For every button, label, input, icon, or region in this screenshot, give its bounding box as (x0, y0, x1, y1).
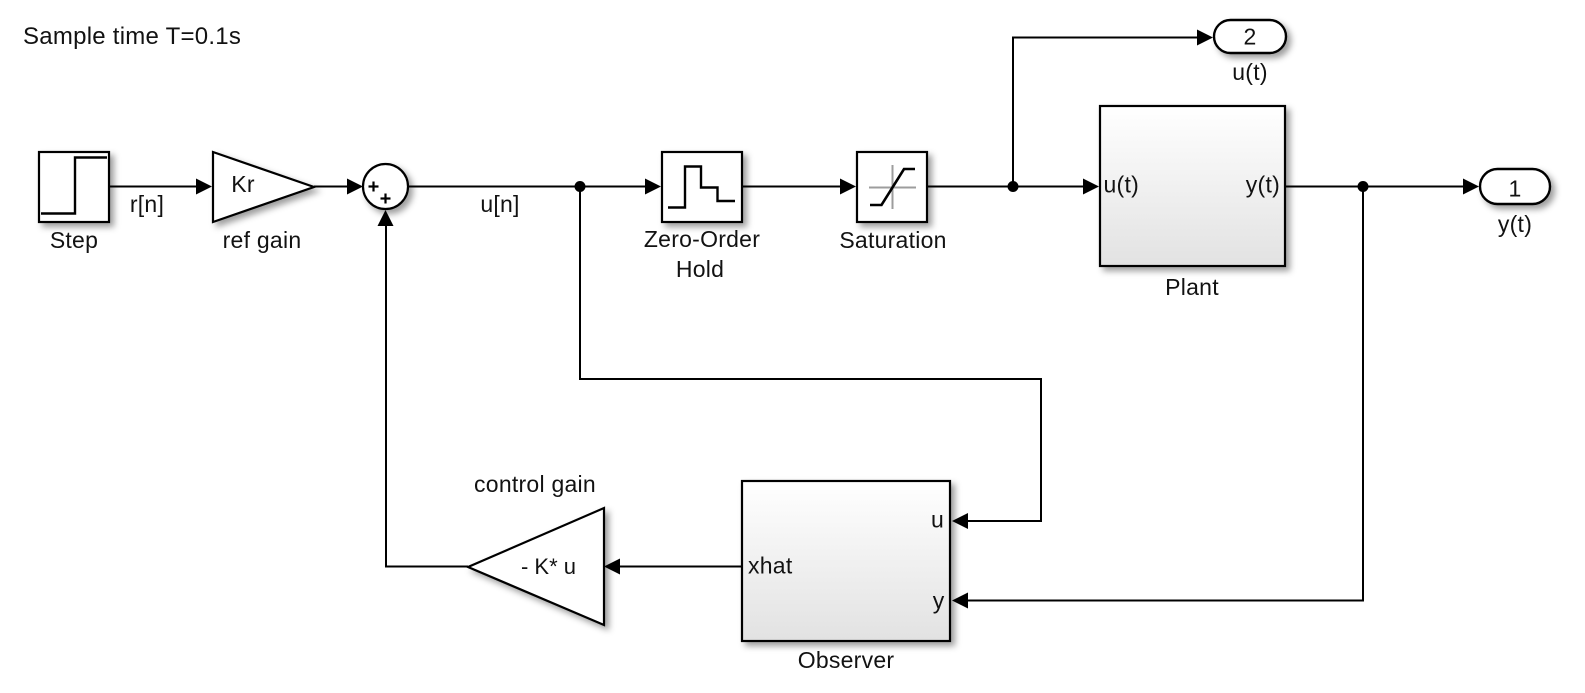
svg-text:2: 2 (1243, 24, 1256, 50)
svg-text:Saturation: Saturation (839, 227, 946, 253)
svg-text:u[n]: u[n] (480, 191, 519, 217)
svg-text:Zero-Order: Zero-Order (644, 226, 760, 252)
svg-text:Hold: Hold (676, 256, 724, 282)
svg-text:y(t): y(t) (1498, 211, 1532, 237)
svg-text:Sample time T=0.1s: Sample time T=0.1s (23, 23, 241, 50)
svg-text:Plant: Plant (1165, 274, 1219, 300)
svg-text:y: y (933, 588, 945, 614)
svg-text:Kr: Kr (231, 171, 255, 197)
svg-text:ref gain: ref gain (223, 227, 302, 253)
svg-text:r[n]: r[n] (130, 191, 164, 217)
svg-text:1: 1 (1508, 176, 1521, 202)
svg-text:u(t): u(t) (1104, 172, 1140, 198)
svg-text:Step: Step (50, 227, 98, 253)
svg-text:- K* u: - K* u (521, 554, 576, 579)
svg-text:u: u (931, 507, 944, 533)
svg-text:control gain: control gain (474, 471, 596, 497)
svg-text:y(t): y(t) (1246, 172, 1280, 198)
svg-text:xhat: xhat (748, 553, 793, 579)
svg-text:u(t): u(t) (1232, 59, 1268, 85)
svg-text:Observer: Observer (798, 647, 895, 673)
